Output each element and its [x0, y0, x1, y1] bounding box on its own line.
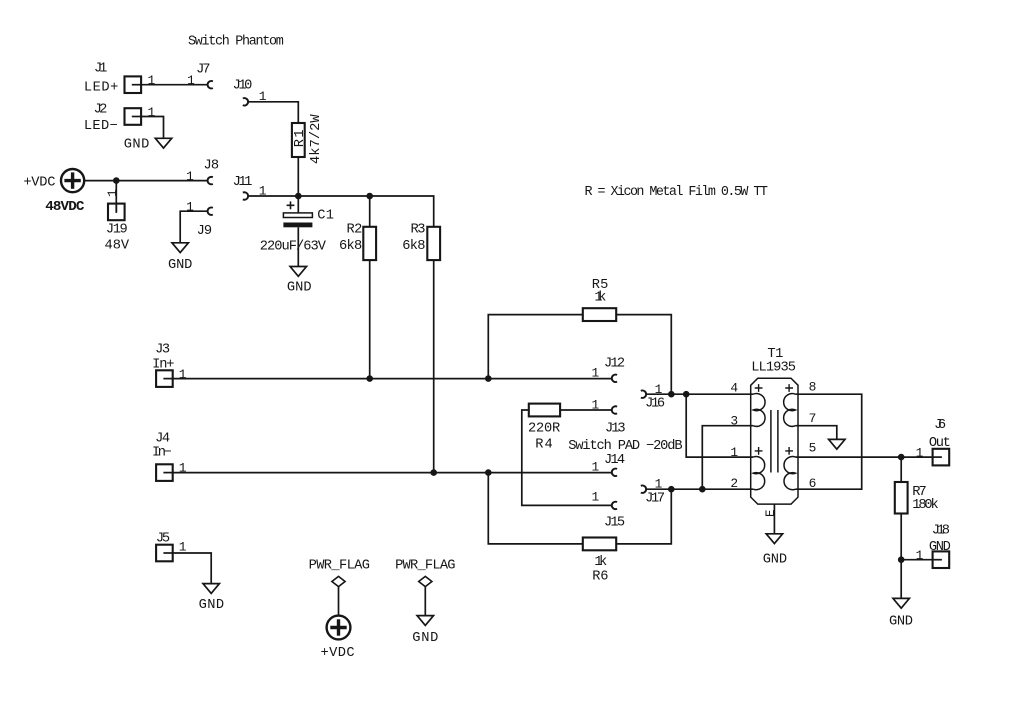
- label GND at C1: [287, 280, 312, 295]
- svg-text:J4: J4: [155, 431, 170, 446]
- svg-text:J14: J14: [604, 453, 625, 468]
- power flag 1 diamond: [332, 576, 345, 586]
- resistor R6: [583, 538, 616, 551]
- connector J2: [125, 108, 142, 125]
- label R2: [346, 222, 362, 237]
- connector J11: [243, 192, 248, 199]
- svg-text:7: 7: [809, 411, 817, 426]
- wire J5 to ground: [173, 553, 212, 584]
- pin 1 of J5: [179, 540, 187, 555]
- wire J3 row: [173, 378, 612, 380]
- svg-text:1k: 1k: [594, 291, 606, 306]
- svg-text:PWR_FLAG: PWR_FLAG: [309, 558, 370, 573]
- svg-text:1: 1: [916, 548, 924, 563]
- svg-text:1: 1: [592, 490, 600, 505]
- svg-text:2: 2: [730, 476, 738, 491]
- svg-text:GND: GND: [889, 615, 913, 630]
- value 180k: [912, 498, 938, 513]
- label J19: [106, 223, 128, 238]
- label GND at J18: [929, 540, 951, 555]
- svg-text:1: 1: [592, 366, 600, 381]
- connector J8: [208, 177, 213, 184]
- label J14: [604, 453, 625, 468]
- label J12: [604, 356, 625, 371]
- junction R1/C1 node: [295, 193, 302, 200]
- svg-text:J3: J3: [155, 343, 170, 358]
- junction at J19 tap: [113, 177, 120, 184]
- svg-text:4k7/2W: 4k7/2W: [309, 114, 324, 164]
- ground at C1: [290, 267, 306, 277]
- svg-text:J2: J2: [94, 103, 108, 118]
- label In+: [152, 358, 174, 373]
- connector J15: [612, 502, 617, 509]
- connector J14: [612, 469, 617, 476]
- pin 1 of J9: [186, 199, 194, 214]
- svg-text:Switch Phantom: Switch Phantom: [188, 35, 284, 50]
- svg-text:R4: R4: [535, 437, 553, 452]
- value 6k8 R2: [339, 239, 362, 254]
- pin 1 of J18: [916, 548, 924, 563]
- wire bridge to T1 pin 3: [702, 426, 753, 490]
- junction J18 tap: [898, 556, 905, 563]
- wire R1 to J11 row: [297, 157, 299, 196]
- svg-text:J10: J10: [233, 78, 253, 93]
- connector J6: [933, 449, 950, 466]
- svg-text:1: 1: [916, 446, 924, 461]
- svg-text:LED+: LED+: [84, 80, 118, 95]
- svg-text:J15: J15: [604, 516, 625, 531]
- wire J4 row: [173, 472, 612, 474]
- resistor R2: [363, 227, 376, 260]
- svg-text:LL1935: LL1935: [751, 361, 796, 376]
- wire J17 to T1 pin 2: [646, 488, 753, 490]
- junction R2 top: [366, 193, 373, 200]
- connector J18: [933, 551, 950, 568]
- resistor R5: [583, 308, 616, 321]
- label R4: [535, 437, 553, 452]
- ground below R7: [893, 598, 909, 608]
- svg-text:In−: In−: [152, 445, 172, 460]
- label +VDC at PWR_FLAG: [321, 646, 355, 661]
- label GND at J5: [199, 598, 225, 613]
- label J17: [645, 491, 665, 506]
- resistor R7: [895, 482, 908, 514]
- label R1: [293, 129, 308, 147]
- wire J16 to T1 pin 4: [646, 393, 753, 395]
- pin 1 of J4: [179, 461, 187, 476]
- junction pin3 bridge: [699, 486, 706, 493]
- label GND at PWR_FLAG 2: [412, 631, 438, 646]
- pin 1 of J19: [105, 189, 120, 197]
- power symbol +VDC: [61, 169, 84, 192]
- svg-text:R3: R3: [411, 222, 426, 237]
- resistor R1: [292, 123, 305, 157]
- svg-text:J13: J13: [605, 422, 626, 437]
- wire J1 to J7: [141, 84, 207, 86]
- svg-text:R1: R1: [293, 129, 308, 147]
- svg-text:LED−: LED−: [84, 119, 118, 134]
- svg-text:1: 1: [730, 445, 738, 460]
- text note Xicon: [584, 185, 768, 200]
- transformer T1 core: [771, 410, 778, 473]
- svg-text:PWR_FLAG: PWR_FLAG: [395, 558, 455, 573]
- value 220R: [528, 421, 560, 436]
- label Out: [929, 436, 951, 451]
- svg-text:1: 1: [592, 397, 600, 412]
- wire R4 to J15: [522, 410, 612, 505]
- svg-text:E: E: [764, 509, 778, 517]
- junction R6 right on J17 row: [668, 486, 675, 493]
- text title Switch Phantom: [188, 35, 284, 50]
- wire J2 to ground: [141, 117, 163, 139]
- wire R2: [369, 196, 371, 227]
- wire J11 row: [248, 196, 433, 227]
- svg-text:6k8: 6k8: [339, 239, 362, 254]
- pin 1 of J13: [592, 397, 600, 412]
- wire to C1: [297, 196, 299, 213]
- wire R4 to J13: [560, 409, 611, 411]
- wire R7 top: [900, 457, 902, 482]
- label J9: [197, 224, 213, 239]
- svg-text:J6: J6: [934, 418, 946, 433]
- ground at T1 pin 7: [829, 439, 845, 449]
- pin 1 of J3: [179, 367, 187, 382]
- connector J10: [243, 98, 248, 105]
- label GND at J9: [168, 258, 192, 273]
- wire R5 left: [488, 315, 583, 379]
- svg-text:1: 1: [148, 105, 156, 120]
- svg-text:GND: GND: [763, 552, 787, 567]
- transformer T1 windings: [753, 394, 795, 490]
- pin 1 of J7: [187, 73, 195, 88]
- junction R3 bottom: [430, 469, 437, 476]
- svg-text:J9: J9: [197, 224, 213, 239]
- label J8: [204, 159, 220, 174]
- pin 2 of T1: [730, 476, 738, 491]
- wire T1 pin 8 to pin 6 loop: [796, 394, 862, 489]
- label J3: [155, 343, 170, 358]
- pin 1 of J17: [655, 477, 663, 492]
- label T1: [767, 347, 783, 362]
- wire R3 to J4 row: [433, 260, 435, 473]
- pin 6 of T1: [809, 476, 817, 491]
- svg-text:J19: J19: [106, 223, 128, 238]
- svg-text:J18: J18: [932, 524, 950, 539]
- svg-text:8: 8: [809, 380, 817, 395]
- svg-text:48VDC: 48VDC: [45, 199, 85, 215]
- svg-text:J11: J11: [233, 175, 253, 190]
- value 1k R6: [594, 555, 607, 570]
- wire T1 pin 7 to ground: [796, 426, 837, 440]
- connector J5: [156, 545, 173, 562]
- pin 1 of J10: [259, 89, 267, 104]
- connector J19: [108, 204, 125, 221]
- svg-text:220uF/63V: 220uF/63V: [260, 239, 327, 254]
- svg-text:C1: C1: [317, 208, 334, 223]
- ground at PWR_FLAG 2: [417, 616, 433, 626]
- junction R5 right on J16 row: [668, 391, 675, 398]
- label J13: [605, 422, 626, 437]
- capacitor C1 bottom plate: [283, 223, 312, 228]
- svg-text:220R: 220R: [528, 421, 560, 436]
- connector J9: [208, 208, 213, 215]
- wire R6 left: [488, 473, 583, 544]
- junction R5 left: [485, 375, 492, 382]
- polarity marks of T1: [755, 384, 793, 455]
- wire PWR_FLAG 1: [338, 587, 340, 616]
- svg-text:GND: GND: [124, 137, 150, 152]
- pin 1 of J11: [259, 183, 267, 198]
- connector J7: [208, 81, 213, 88]
- ground at J9: [172, 243, 188, 253]
- connector J17: [641, 485, 646, 492]
- junction R2 bottom: [366, 375, 373, 382]
- label R3: [411, 222, 426, 237]
- label LED+: [84, 80, 118, 95]
- label J4: [155, 431, 170, 446]
- svg-text:J8: J8: [204, 159, 220, 174]
- junction R6 left: [485, 469, 492, 476]
- svg-text:1: 1: [105, 189, 120, 197]
- resistor R4: [529, 404, 560, 417]
- svg-text:3: 3: [730, 414, 738, 429]
- svg-text:GND: GND: [412, 631, 438, 646]
- pin 8 of T1: [809, 380, 817, 395]
- label GND at J2: [124, 137, 150, 152]
- label J16: [645, 396, 665, 411]
- wire R5 right: [616, 315, 671, 395]
- svg-text:1: 1: [179, 367, 187, 382]
- pin 1 of J14: [592, 459, 600, 474]
- svg-text:GND: GND: [287, 280, 312, 295]
- label J18: [932, 524, 950, 539]
- wire R2 to J3 row: [369, 260, 371, 379]
- pin 1 of J1: [148, 73, 156, 88]
- label J2: [94, 103, 108, 118]
- pin 1 of J12: [592, 366, 600, 381]
- power flag 2 diamond: [419, 576, 432, 586]
- label In-: [152, 445, 172, 460]
- ground at T1: [766, 534, 782, 544]
- svg-text:4: 4: [730, 380, 738, 395]
- svg-text:J16: J16: [645, 396, 665, 411]
- svg-text:5: 5: [809, 440, 817, 455]
- label C1: [317, 208, 334, 223]
- svg-text:J17: J17: [645, 491, 665, 506]
- wire bridge to T1 pin 1: [686, 394, 753, 457]
- label R5: [592, 278, 609, 293]
- wire C1 to ground: [297, 227, 299, 266]
- pin 1 of J2: [148, 105, 156, 120]
- wire R7 bottom to ground: [900, 514, 902, 599]
- wire T1 pin 5 to J6: [796, 456, 933, 458]
- label 48V: [105, 239, 130, 254]
- svg-text:J1: J1: [94, 62, 107, 77]
- ground at J2: [155, 138, 171, 148]
- svg-text:R6: R6: [592, 569, 608, 584]
- svg-text:R2: R2: [346, 222, 362, 237]
- svg-text:1: 1: [592, 459, 600, 474]
- pin 3 of T1: [730, 414, 738, 429]
- label J10: [233, 78, 253, 93]
- svg-text:J7: J7: [196, 63, 210, 78]
- wire J10 to R1: [248, 102, 298, 123]
- svg-text:1k: 1k: [594, 555, 607, 570]
- label GND bottom right: [889, 615, 913, 630]
- label J5: [156, 531, 170, 546]
- wire R6 right: [616, 489, 671, 544]
- connector J4: [156, 464, 173, 481]
- label PWR_FLAG 1: [309, 558, 370, 573]
- svg-text:+VDC: +VDC: [23, 175, 55, 190]
- pin 1 of J16: [655, 382, 663, 397]
- label 48VDC: [45, 199, 85, 215]
- label J1: [94, 62, 107, 77]
- label GND at T1: [763, 552, 787, 567]
- label LED-: [84, 119, 118, 134]
- pin 5 of T1: [809, 440, 817, 455]
- wire PWR_FLAG 2: [424, 587, 426, 616]
- pin 1 of T1: [730, 445, 738, 460]
- junction R7 top: [898, 454, 905, 461]
- svg-text:1: 1: [186, 169, 194, 184]
- wire +VDC to J8: [84, 180, 207, 182]
- connector J16: [641, 390, 646, 397]
- svg-text:1: 1: [186, 199, 194, 214]
- value LL1935: [751, 361, 796, 376]
- label R6: [592, 569, 608, 584]
- pin 1 of J8: [186, 169, 194, 184]
- label R7: [912, 485, 926, 500]
- value 220uF/63V: [260, 239, 327, 254]
- svg-text:GND: GND: [199, 598, 225, 613]
- label J15: [604, 516, 625, 531]
- svg-text:J12: J12: [604, 356, 625, 371]
- wire J9 to ground: [180, 211, 207, 243]
- value 1k R5: [594, 291, 606, 306]
- label J6: [934, 418, 946, 433]
- pin 7 of T1: [809, 411, 817, 426]
- plus mark of C1: [287, 201, 295, 209]
- svg-text:R = Xicon Metal Film 0.5W TT: R = Xicon Metal Film 0.5W TT: [584, 185, 768, 200]
- ground at J5: [203, 584, 219, 594]
- svg-text:6k8: 6k8: [402, 239, 425, 254]
- svg-text:180k: 180k: [912, 498, 938, 513]
- pin 1 of J6: [916, 446, 924, 461]
- label J7: [196, 63, 210, 78]
- connector J12: [612, 375, 617, 382]
- junction pin1 bridge: [683, 391, 690, 398]
- svg-text:Switch PAD −20dB: Switch PAD −20dB: [568, 439, 682, 454]
- value 4k7/2W: [309, 114, 324, 164]
- resistor R3: [427, 227, 440, 260]
- svg-text:1: 1: [148, 73, 156, 88]
- svg-text:1: 1: [187, 73, 195, 88]
- label PWR_FLAG 2: [395, 558, 455, 573]
- power symbol +VDC at PWR_FLAG: [327, 616, 351, 640]
- pin E of T1: [764, 509, 778, 517]
- label +VDC: [23, 175, 55, 190]
- connector J13: [612, 406, 617, 413]
- svg-text:GND: GND: [168, 258, 192, 273]
- svg-text:+VDC: +VDC: [321, 646, 355, 661]
- value 6k8 R3: [402, 239, 425, 254]
- connector J1: [125, 76, 142, 93]
- label J11: [233, 175, 253, 190]
- pin 4 of T1: [730, 380, 738, 395]
- label Switch PAD -20dB: [568, 439, 682, 454]
- svg-text:48V: 48V: [105, 239, 130, 254]
- capacitor C1 top plate: [283, 213, 312, 218]
- transformer T1 body: [751, 378, 798, 504]
- wire to J18: [901, 559, 932, 561]
- wire to J19: [115, 181, 117, 212]
- connector J3: [156, 370, 173, 387]
- pin 1 of J15: [592, 490, 600, 505]
- wire T1 pin E to ground: [773, 504, 775, 534]
